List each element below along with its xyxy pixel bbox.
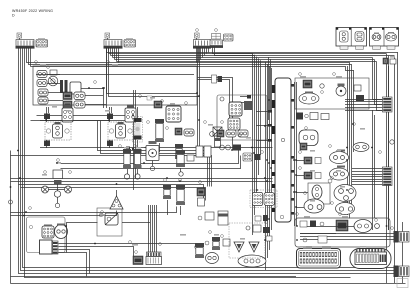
- connector label J2: [105, 33, 110, 38]
- socket circle right: [128, 129, 132, 133]
- inline connector bars: [60, 80, 63, 93]
- legend face 1: [340, 31, 349, 42]
- label strip: [397, 279, 408, 288]
- wire: [46, 107, 48, 122]
- wire: [107, 38, 109, 40]
- component V2: [176, 185, 185, 189]
- wire bundle from J4: [213, 48, 253, 54]
- wire: [11, 207, 177, 213]
- wires into block B: [352, 168, 383, 170]
- wire triple bus upper: [300, 233, 394, 235]
- connector label J4: [212, 34, 221, 40]
- wire left edge: [10, 151, 12, 284]
- wire mid bus C: [37, 116, 132, 119]
- starter motor symbol: [105, 213, 118, 225]
- svg-text:WR450F 2022 WIRING: WR450F 2022 WIRING: [12, 9, 53, 13]
- junction bits below capacitor: [126, 147, 130, 151]
- wire: [372, 110, 374, 230]
- wire: [57, 197, 59, 203]
- label tag: [147, 96, 152, 100]
- wire: [11, 211, 117, 216]
- wires into block A: [345, 99, 383, 101]
- lamp socket dashed box: [45, 122, 71, 140]
- wire: [296, 207, 304, 209]
- ECU coupler A: [297, 249, 341, 269]
- svg-text:D: D: [12, 14, 15, 18]
- coupler dark inside: [336, 220, 348, 231]
- wire: [47, 83, 60, 85]
- horn bottom: [238, 255, 266, 267]
- socket circle left: [46, 129, 50, 133]
- wire drops to comb: [148, 205, 150, 252]
- small circle: [99, 213, 103, 217]
- junction dots: [264, 125, 266, 127]
- lamp socket body: [53, 124, 63, 138]
- flasher relay cluster: [53, 170, 63, 179]
- wire bundle from J1: [19, 48, 394, 274]
- wire lower bus continue: [11, 276, 297, 278]
- wire bundle from J3: [196, 48, 198, 63]
- wire: [103, 88, 105, 108]
- comb connector: [147, 252, 162, 257]
- ISC valve symbol: [336, 86, 346, 96]
- wire: [296, 160, 304, 162]
- coupler faces D: [175, 128, 182, 135]
- wire: [167, 200, 169, 215]
- ground circle: [124, 174, 129, 179]
- legend label strips 2: [373, 46, 381, 49]
- fuel pump: [176, 150, 185, 154]
- component V1: [163, 185, 171, 189]
- ECU right pin stubs: [291, 84, 294, 87]
- connector pair row 2 dark: [63, 101, 72, 108]
- connector J1: [16, 40, 34, 47]
- lighting box outline: [295, 218, 390, 247]
- wire: [48, 92, 63, 94]
- connector pair row 1 dark: [63, 92, 72, 100]
- connector end block upper: [394, 231, 399, 243]
- wire J2 long drops: [107, 49, 198, 94]
- wire: [137, 140, 139, 148]
- 3-pin face triangle: [110, 196, 123, 209]
- component F boxes: [196, 146, 203, 157]
- wire vertical pair center: [133, 90, 135, 190]
- wire: [402, 222, 404, 283]
- inline connector dark top: [44, 114, 50, 120]
- wire: [388, 66, 390, 230]
- ignition coil center: [155, 119, 164, 123]
- sensor row 4 face b: [336, 203, 355, 215]
- coupler face inside: [354, 220, 372, 233]
- injector face below: [299, 130, 318, 146]
- wire: [152, 161, 154, 167]
- wire: [145, 147, 273, 149]
- diode pack 2: [249, 242, 259, 252]
- face grid dark: [229, 102, 242, 116]
- wire bottom bus: [11, 283, 406, 285]
- wire: [85, 104, 106, 106]
- legend face 3: [372, 34, 381, 41]
- face grid 2: [228, 118, 240, 130]
- top right small coupler: [383, 58, 388, 64]
- socket circle left: [109, 129, 113, 133]
- wire stubs left of cluster: [247, 95, 251, 99]
- wire: [394, 57, 396, 283]
- sensor row 3 box: [308, 183, 330, 204]
- connector label J1: [17, 33, 22, 38]
- connector end block lower: [394, 266, 399, 278]
- small pieces row under box: [296, 113, 303, 120]
- diode pack 1: [234, 242, 244, 252]
- wire: [198, 80, 230, 129]
- switch face SW4: [38, 97, 48, 104]
- right cluster: inline comp: [195, 246, 198, 249]
- lamp socket body: [116, 124, 126, 138]
- wire: [47, 74, 60, 76]
- wire drops to ECU bus: [268, 57, 270, 120]
- coupler grid face: [253, 193, 263, 206]
- relay above: [62, 108, 73, 122]
- resistor block: [50, 70, 57, 75]
- connector J3: [194, 40, 211, 47]
- legend label strips: [340, 46, 348, 49]
- inline connector dark bottom: [107, 141, 113, 147]
- ground circle left: [9, 200, 13, 204]
- connector J2: [104, 40, 122, 47]
- coupler oval pair right: [353, 143, 369, 152]
- wire: [196, 38, 198, 40]
- relay above: [125, 108, 136, 122]
- wire right column: [347, 66, 349, 215]
- wire sensor bus vertical: [296, 82, 298, 226]
- inline connector dark top: [107, 114, 113, 120]
- legend face 2: [355, 32, 364, 42]
- connector face J2a: [124, 40, 136, 48]
- wire: [109, 107, 111, 122]
- wire: [19, 38, 21, 40]
- small dark bits right: [263, 227, 270, 233]
- wire: [300, 226, 354, 228]
- legend box 2: [370, 28, 399, 47]
- wire: [388, 56, 390, 230]
- small circle a: [220, 145, 225, 150]
- wire: [57, 184, 59, 191]
- CDI unit face: [166, 106, 181, 122]
- inline connector dark bottom: [44, 141, 50, 147]
- wire cross link: [40, 120, 109, 122]
- diode cluster dashed box: [229, 223, 265, 258]
- wire: [36, 74, 194, 76]
- switch face SW1: [37, 71, 47, 78]
- small rects: [255, 216, 261, 221]
- wire: [159, 143, 161, 152]
- bulb right: [65, 186, 72, 193]
- connector pair row 1 face: [74, 92, 85, 100]
- wire: [61, 156, 241, 169]
- component V3: [197, 188, 205, 196]
- small bits right in box: [354, 85, 361, 91]
- legend box 1 (connector face views): [336, 28, 367, 47]
- switch face SW2: [37, 80, 47, 87]
- wire: [85, 95, 103, 97]
- small dark bits: [233, 145, 241, 151]
- small cluster 2: [205, 241, 209, 245]
- wire bundle from J2: [106, 48, 108, 53]
- wire: [386, 54, 388, 283]
- wire drops to block A: [373, 58, 383, 100]
- radiator fan box: [146, 146, 159, 161]
- socket circle right: [65, 129, 69, 133]
- small circle b: [226, 145, 231, 150]
- coupler row right A: [300, 143, 307, 150]
- wire drops mid: [252, 53, 254, 235]
- wire: [31, 120, 128, 122]
- wire: [296, 192, 308, 194]
- wire: [61, 151, 239, 164]
- component E: [175, 144, 183, 148]
- TPS face: [299, 93, 319, 104]
- bulb left: [42, 186, 49, 193]
- small circle right: [390, 140, 394, 144]
- switch face SW3: [38, 89, 48, 96]
- battery: [40, 240, 53, 254]
- small cluster left of ECU: [243, 153, 252, 161]
- coupler grid face dark: [264, 193, 275, 206]
- wire mid bus A: [198, 78, 233, 151]
- wire ECU right rail: [294, 82, 296, 226]
- sensor row 1 face: [330, 152, 349, 164]
- injector: [213, 127, 222, 136]
- wire: [101, 121, 210, 187]
- label ticks: [40, 64, 46, 66]
- wire: [252, 112, 254, 114]
- throttle body box: [295, 78, 369, 109]
- connector block right A: [383, 97, 393, 112]
- ECU left pin stubs: [272, 85, 275, 93]
- wire: [11, 156, 212, 187]
- small piece: [212, 75, 217, 83]
- ECU coupler B oval: [350, 249, 391, 269]
- coupler cluster box: [217, 95, 267, 140]
- sensor row 4 face a: [304, 199, 324, 213]
- starter relay box: [97, 208, 122, 236]
- relay box: [70, 82, 81, 94]
- connector block right B: [383, 167, 393, 186]
- wire mid band: [98, 121, 208, 187]
- small cluster right of box: [198, 216, 202, 220]
- wire: [296, 175, 304, 177]
- connector pair row 2 face: [74, 101, 85, 108]
- wire bottom link: [40, 147, 150, 149]
- stub ticks: [268, 110, 272, 113]
- connector J4: [210, 40, 223, 46]
- battery box outline: [27, 217, 66, 253]
- coupler face oval: [55, 225, 68, 239]
- sensor row 2 couplers: [304, 172, 312, 179]
- small circle: [29, 225, 32, 228]
- capacitor / condenser: [133, 117, 143, 143]
- wire: [48, 100, 63, 102]
- wire: [116, 190, 118, 196]
- small pieces in lighting box: [300, 221, 307, 227]
- right cluster: oval face: [206, 253, 219, 264]
- wires from battery: [59, 243, 196, 245]
- wire: [109, 140, 111, 148]
- junction box outline: [33, 66, 197, 105]
- wire: [397, 52, 399, 231]
- battery terminals: [53, 241, 59, 254]
- wire: [81, 88, 103, 90]
- row under: [210, 132, 215, 137]
- legend face 4: [386, 33, 397, 41]
- small coupler pair C1: [154, 101, 162, 108]
- connector face J4a: [224, 34, 234, 41]
- small comp above diodes: [253, 225, 261, 232]
- wire mid bus B: [11, 178, 273, 180]
- wire: [67, 223, 98, 253]
- sensor row 2 face: [330, 168, 349, 180]
- coil pair: [123, 149, 131, 153]
- ref circles: [35, 61, 38, 64]
- wire: [46, 140, 48, 148]
- lamp socket dashed box: [108, 122, 134, 140]
- ECU main box: [275, 78, 291, 222]
- coupler face grid: [42, 226, 54, 238]
- connector label J3: [195, 33, 200, 38]
- sensor row 1 couplers: [304, 157, 312, 164]
- headlight bulb: [48, 76, 58, 86]
- TPS dark piece: [303, 80, 312, 88]
- connector face J1a: [36, 40, 48, 48]
- coupler dark hatched: [133, 256, 143, 265]
- wire: [122, 222, 150, 224]
- sensor row 3 face: [334, 185, 356, 202]
- coupler pair dashed box: [250, 190, 277, 208]
- wire bus left of ECU: [265, 62, 267, 270]
